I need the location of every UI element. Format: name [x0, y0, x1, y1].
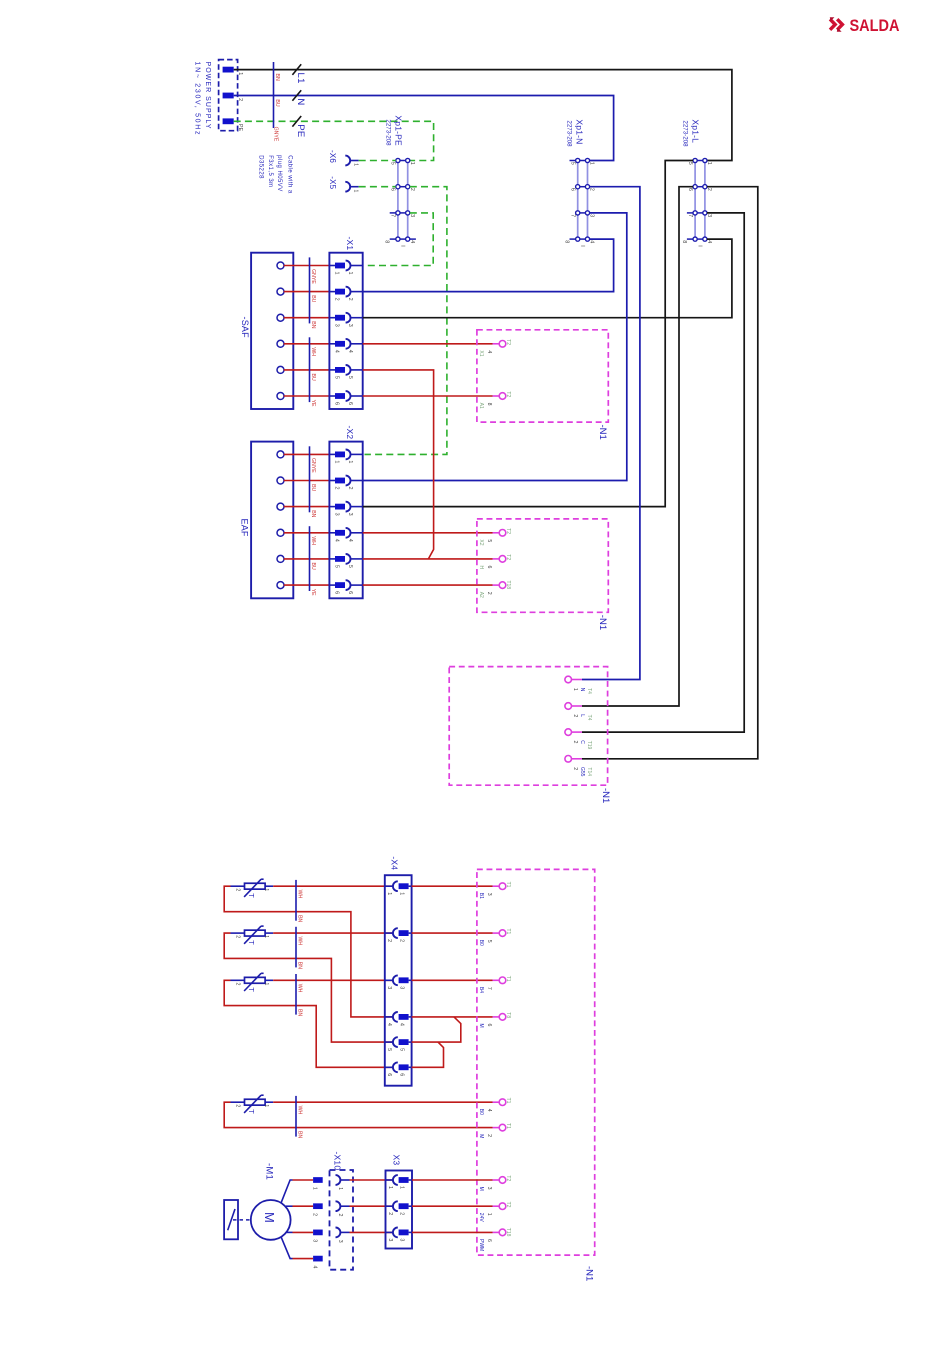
Xp1-PE footnote mark	[401, 245, 405, 247]
wire -X1.5 junction to -X2.5 net	[363, 370, 434, 559]
svg-text:BN: BN	[296, 1009, 302, 1016]
Xp1-PE pin 1	[406, 158, 410, 162]
Xp1-N pin 6	[576, 185, 580, 189]
wire Xp1-L.3 to -N1 T19:C	[582, 213, 744, 732]
-SAF contact 5	[277, 366, 284, 373]
svg-text:BU: BU	[274, 99, 280, 106]
Xp1-L pin 7 stub	[687, 212, 693, 214]
svg-text:N: N	[295, 98, 306, 105]
svg-text:2: 2	[312, 1213, 318, 1216]
wire EAF 5 to -X2 5	[284, 558, 330, 560]
svg-text:2: 2	[387, 1212, 393, 1215]
wire -SAF 6 to -X1 6	[284, 395, 330, 397]
svg-text:BN: BN	[296, 1131, 302, 1138]
svg-text:T2: T2	[505, 554, 511, 560]
terminal block -X4	[385, 875, 412, 1085]
svg-text:Xp1-N: Xp1-N	[575, 119, 585, 144]
-N1 terminal T4:N:1	[565, 676, 572, 683]
motor pin 1	[313, 1177, 323, 1183]
cable marker EAF-X2 upper	[309, 446, 311, 512]
-X1 terminal 6	[335, 393, 345, 399]
svg-text:T14: T14	[586, 767, 592, 776]
svg-text:BN: BN	[296, 962, 302, 969]
X3 terminal 1	[386, 1179, 394, 1181]
svg-text:1: 1	[398, 892, 404, 895]
cable marker SAF-X1 upper	[309, 257, 311, 323]
svg-text:5: 5	[334, 565, 340, 568]
-N1 input T2:H:6	[499, 556, 506, 563]
svg-text:T1: T1	[505, 929, 511, 935]
Xp1-PE pin 8	[396, 237, 400, 241]
svg-text:1: 1	[237, 72, 243, 75]
svg-text:2: 2	[234, 1104, 240, 1107]
svg-text:1: 1	[386, 892, 392, 895]
wire -SAF 5 to -X1 5	[284, 369, 330, 371]
Xp1-N pin 8 stub	[570, 238, 576, 240]
svg-text:YE: YE	[310, 400, 316, 407]
svg-text:2: 2	[386, 939, 392, 942]
cable marker thermistor	[295, 1096, 297, 1137]
wire Xp1-L.2 to -N1 T14:G55	[582, 187, 758, 759]
svg-text:-X5: -X5	[328, 176, 337, 189]
wire -SAF 4 to -X1 4	[284, 343, 330, 345]
connector Xp1-L internal bus	[694, 161, 696, 240]
-N1 input T1:B0:4	[499, 1099, 506, 1106]
Xp1-L pin 6	[693, 185, 697, 189]
Xp1-N pin 2	[585, 185, 589, 189]
wire -X2.6 to -N1 T18:A2	[363, 584, 493, 586]
-X1 terminal 1	[335, 263, 345, 269]
svg-text:3: 3	[337, 1240, 343, 1243]
motor lead 2	[286, 1205, 293, 1207]
svg-text:BN: BN	[310, 510, 316, 517]
svg-text:T8: T8	[505, 1012, 511, 1018]
wire X3.1 to -N1	[412, 1179, 493, 1181]
thermistor R1	[245, 883, 266, 889]
-N1 terminal T4:L:2	[565, 703, 572, 710]
thermistor R4	[245, 1099, 266, 1105]
-X2 terminal 2	[335, 478, 345, 484]
Xp1-L pin 1	[703, 158, 707, 162]
-SAF contact 1	[277, 262, 284, 269]
svg-text:2: 2	[409, 188, 415, 191]
Xp1-N pin 3	[585, 211, 589, 215]
-X4 terminal 1	[385, 885, 393, 887]
svg-text:5: 5	[486, 940, 492, 943]
svg-text:4: 4	[486, 350, 492, 353]
EAF contact 3	[277, 503, 284, 510]
svg-text:1: 1	[263, 935, 269, 938]
-N1 input T1:B0:5	[499, 930, 506, 937]
Xp1-PE pin 5	[396, 158, 400, 162]
svg-text:1: 1	[347, 272, 353, 275]
Xp1-PE pin 4 stub	[410, 238, 416, 240]
svg-text:2273-208: 2273-208	[385, 119, 392, 146]
wire thermistor R2 bottom to -X4.5	[224, 933, 393, 1042]
Xp1-L pin 5	[693, 158, 697, 162]
svg-text:3: 3	[312, 1239, 318, 1242]
svg-text:6: 6	[486, 566, 492, 569]
svg-text:-N1: -N1	[597, 425, 608, 440]
EAF contact 6	[277, 582, 284, 589]
svg-text:6: 6	[386, 1073, 392, 1076]
svg-text:T2: T2	[505, 1175, 511, 1181]
-N1 input T2:M:3	[499, 1177, 506, 1184]
wire thermistor R1 bottom to -X4.4	[224, 886, 393, 1017]
svg-text:3: 3	[486, 1187, 492, 1190]
wire -X5 to Xp1-PE green dashed	[359, 186, 396, 188]
svg-text:3: 3	[347, 513, 353, 516]
wire thermistor R2 top to -X4.2	[273, 932, 393, 934]
svg-text:X3: X3	[392, 1155, 402, 1166]
wire Xp1-PE pin2 to X2 pin1 green dashed	[365, 187, 447, 455]
svg-text:5: 5	[347, 376, 353, 379]
wire -X1.4 to -N1 T2:X1	[363, 343, 493, 345]
cable marker power supply	[273, 62, 275, 128]
svg-text:1: 1	[263, 1104, 269, 1107]
motor pin 4	[313, 1256, 323, 1262]
Xp1-PE pin 4	[406, 237, 410, 241]
Xp1-L pin 4	[703, 237, 707, 241]
Xp1-N pin 5	[576, 158, 580, 162]
-X2 terminal 4	[335, 530, 345, 536]
Xp1-PE pin 2	[406, 185, 410, 189]
svg-text:6: 6	[398, 1073, 404, 1076]
plug -X10 box	[330, 1170, 354, 1270]
connector Xp1-PE internal bus	[397, 161, 399, 240]
svg-text:4: 4	[312, 1266, 318, 1269]
svg-text:L: L	[579, 714, 585, 717]
svg-text:M: M	[478, 1024, 484, 1028]
svg-text:6: 6	[486, 1024, 492, 1027]
svg-text:3: 3	[334, 513, 340, 516]
svg-text:1: 1	[353, 190, 359, 193]
svg-text:M: M	[262, 1212, 277, 1223]
wire -X1.6 to -N1 T2:A1	[363, 395, 493, 397]
svg-text:-X4: -X4	[390, 856, 400, 870]
svg-text:1: 1	[334, 272, 340, 275]
-X4 terminal 3	[385, 979, 393, 981]
-X2 terminal 3	[335, 504, 345, 510]
-X2 terminal 1	[335, 452, 345, 458]
svg-text:2: 2	[347, 487, 353, 490]
wire -X1.2 to Xp1-N.4	[363, 239, 614, 292]
wire Xp1-N.2 to -N1 T4:N	[582, 187, 640, 680]
svg-text:5: 5	[398, 1048, 404, 1051]
svg-text:5: 5	[386, 1048, 392, 1051]
svg-text:D35228: D35228	[257, 155, 263, 179]
svg-text:1: 1	[398, 1186, 404, 1189]
wire N mains	[234, 96, 614, 161]
terminal block X3	[386, 1171, 413, 1249]
svg-text:X1: X1	[478, 350, 484, 356]
svg-text:BU: BU	[310, 295, 316, 302]
svg-text:GNYE: GNYE	[310, 458, 316, 473]
svg-text:1: 1	[263, 983, 269, 986]
svg-text:T19: T19	[586, 741, 592, 750]
connector Xp1-N internal bus	[577, 161, 579, 240]
Xp1-L footnote mark	[699, 245, 703, 247]
-X10 socket 3	[336, 1228, 341, 1238]
power supply box	[219, 60, 238, 131]
wire -SAF 2 to -X1 2	[284, 291, 330, 293]
svg-text:6: 6	[486, 1239, 492, 1242]
svg-text:A1: A1	[478, 403, 484, 409]
svg-text:2: 2	[337, 1214, 343, 1217]
motor -M1	[251, 1200, 291, 1240]
svg-text:7: 7	[570, 214, 576, 217]
svg-text:2: 2	[572, 714, 578, 717]
svg-text:B0: B0	[478, 940, 484, 946]
-X1 terminal 2	[335, 289, 345, 295]
wire -X10.3 to X3.3	[350, 1231, 393, 1233]
svg-text:2: 2	[347, 298, 353, 301]
svg-text:1: 1	[263, 888, 269, 891]
-N1 terminal T19:C:2	[565, 729, 572, 736]
svg-text:6: 6	[347, 591, 353, 594]
motor lead 1	[281, 1180, 292, 1203]
svg-text:BN: BN	[310, 321, 316, 328]
svg-text:GNYE: GNYE	[273, 127, 279, 142]
svg-text:4: 4	[589, 240, 595, 243]
controller -N1 main box	[477, 869, 595, 1255]
-N1 input T18:A2:2	[499, 582, 506, 589]
wire -X2.5 to -N1 T2:H	[363, 558, 493, 560]
wire thermistor R4 bottom to -N1 T1:M	[224, 1102, 492, 1127]
svg-text:M: M	[478, 1134, 484, 1138]
svg-text:T18: T18	[505, 581, 511, 590]
svg-text:2273-208: 2273-208	[566, 120, 573, 147]
svg-text:1: 1	[572, 688, 578, 691]
-SAF contact 2	[277, 288, 284, 295]
svg-text:2: 2	[486, 1134, 492, 1137]
Xp1-PE pin 7 stub	[390, 212, 396, 214]
svg-text:WH: WH	[296, 937, 302, 946]
-N1 input T18:PWM:6	[499, 1229, 506, 1236]
Xp1-N pin 4	[585, 237, 589, 241]
Xp1-N pin 7	[576, 211, 580, 215]
motor lead 4	[281, 1237, 292, 1258]
svg-text:5: 5	[570, 162, 576, 165]
wire -SAF 3 to -X1 3	[284, 317, 330, 319]
wire -X4.4 to -N1 T8:M	[412, 1016, 493, 1018]
cable marker thermistor	[295, 974, 297, 1015]
svg-text:PWM: PWM	[478, 1239, 484, 1251]
svg-text:T2: T2	[505, 528, 511, 534]
-N1 input T2:X2:5	[499, 530, 506, 537]
svg-text:3: 3	[398, 1238, 404, 1241]
wire -X4.5 join	[412, 1017, 461, 1042]
-X2 terminal 5	[335, 556, 345, 562]
svg-text:3: 3	[386, 986, 392, 989]
svg-text:BU: BU	[310, 484, 316, 491]
svg-text:PE: PE	[295, 124, 306, 137]
svg-text:24V: 24V	[478, 1213, 484, 1223]
-X1 terminal 5	[335, 367, 345, 373]
EAF contact 1	[277, 451, 284, 458]
Xp1-L pin 3	[703, 211, 707, 215]
Xp1-N pin 5 stub	[570, 160, 576, 162]
svg-text:1: 1	[387, 1186, 393, 1189]
svg-text:T2: T2	[505, 1202, 511, 1208]
svg-text:EAF: EAF	[240, 519, 250, 537]
svg-text:T2: T2	[505, 391, 511, 397]
svg-text:YE: YE	[310, 589, 316, 596]
svg-text:BN: BN	[296, 915, 302, 922]
svg-text:X2: X2	[478, 539, 484, 545]
switch slash PE	[292, 116, 301, 127]
svg-text:1: 1	[312, 1187, 318, 1190]
svg-text:2: 2	[237, 98, 243, 101]
wire thermistor R3 top to -X4.3	[273, 979, 393, 981]
thermistor R3	[245, 977, 266, 983]
svg-text:5: 5	[687, 162, 693, 165]
svg-text:2: 2	[234, 983, 240, 986]
svg-text:T4: T4	[586, 688, 592, 694]
shaft dashed link	[233, 1219, 251, 1221]
svg-text:C: C	[579, 740, 585, 744]
controller -N1 box 1	[477, 330, 608, 422]
svg-text:3: 3	[409, 214, 415, 217]
Xp1-N pin 8	[576, 237, 580, 241]
svg-text:B4: B4	[478, 987, 484, 993]
svg-text:1: 1	[486, 1213, 492, 1216]
svg-text:8: 8	[384, 240, 390, 243]
terminal block -X2	[329, 442, 362, 599]
svg-text:PE: PE	[237, 124, 243, 132]
svg-text:6: 6	[390, 188, 396, 191]
cable marker SAF-X1 lower	[309, 337, 311, 402]
svg-text:3: 3	[387, 1238, 393, 1241]
power supply terminal PE	[223, 118, 234, 124]
svg-text:3: 3	[589, 214, 595, 217]
svg-text:M: M	[478, 1187, 484, 1191]
EAF contact 2	[277, 477, 284, 484]
svg-text:Xp1-L: Xp1-L	[691, 119, 701, 143]
wire -X6 to Xp1-PE green dashed	[359, 160, 396, 162]
svg-text:SALDA: SALDA	[850, 16, 900, 35]
svg-text:4: 4	[334, 350, 340, 353]
svg-text:4: 4	[409, 240, 415, 243]
-N1 input T1:B4:7	[499, 977, 506, 984]
wire EAF 6 to -X2 6	[284, 584, 330, 586]
svg-text:G55: G55	[579, 767, 585, 777]
svg-text:4: 4	[706, 240, 712, 243]
svg-text:BU: BU	[310, 374, 316, 381]
svg-text:-X1: -X1	[345, 237, 355, 251]
svg-text:5: 5	[486, 539, 492, 542]
-SAF contact 6	[277, 393, 284, 400]
svg-text:6: 6	[347, 402, 353, 405]
svg-text:N: N	[579, 688, 585, 692]
wire -SAF 1 to -X1 1	[284, 265, 330, 267]
svg-text:1: 1	[706, 162, 712, 165]
svg-text:BN: BN	[274, 74, 280, 81]
motor pin 3	[313, 1230, 323, 1236]
svg-text:8: 8	[564, 240, 570, 243]
Xp1-L pin 8	[693, 237, 697, 241]
wire L1 mains	[234, 70, 732, 161]
svg-text:4: 4	[347, 350, 353, 353]
svg-text:4: 4	[347, 539, 353, 542]
svg-text:WH: WH	[310, 536, 316, 545]
svg-text:GNYE: GNYE	[310, 269, 316, 284]
svg-text:8: 8	[486, 403, 492, 406]
svg-text:B0: B0	[478, 1109, 484, 1115]
wire -X1.3 to Xp1-L.4	[363, 239, 732, 318]
svg-text:5: 5	[390, 162, 396, 165]
svg-text:1: 1	[337, 1187, 343, 1190]
-N1 input T2:24V:1	[499, 1203, 506, 1210]
svg-text:-X6: -X6	[328, 150, 337, 163]
svg-text:-N1: -N1	[600, 788, 611, 803]
wire Xp1-L.6 to -N1 T4:L	[582, 187, 693, 706]
-N1 input T1:B1:3	[499, 883, 506, 890]
switch slash N	[292, 90, 301, 101]
power supply terminal 1	[223, 67, 234, 73]
svg-text:2: 2	[706, 188, 712, 191]
svg-text:3: 3	[398, 986, 404, 989]
SALDA logo icon	[830, 19, 842, 30]
svg-text:T: T	[247, 940, 256, 945]
svg-text:-N1: -N1	[584, 1266, 595, 1281]
-X4 terminal 5	[385, 1041, 393, 1043]
wire -X2.2 to Xp1-N.3	[363, 213, 627, 481]
wire thermistor R1 top to -X4.1	[273, 885, 393, 887]
svg-text:1: 1	[409, 162, 415, 165]
X3 terminal 3	[386, 1231, 394, 1233]
svg-text:-X2: -X2	[345, 426, 355, 440]
svg-text:1: 1	[347, 460, 353, 463]
-X10 socket 2	[336, 1201, 341, 1211]
-X4 terminal 4	[385, 1016, 393, 1018]
-X4 terminal 6	[385, 1066, 393, 1068]
svg-text:1N~ 230V, 50Hz: 1N~ 230V, 50Hz	[194, 62, 201, 137]
svg-text:7: 7	[486, 987, 492, 990]
controller -N1 box 2	[477, 519, 608, 612]
svg-text:T1: T1	[505, 882, 511, 888]
svg-text:Cable with a: Cable with a	[287, 155, 293, 194]
X3 terminal 2	[386, 1205, 394, 1207]
svg-text:2: 2	[398, 939, 404, 942]
svg-text:B1: B1	[478, 893, 484, 899]
svg-text:2: 2	[234, 888, 240, 891]
-X1 terminal 3	[335, 315, 345, 321]
wire thermistor R3 bottom to -X4.6	[224, 980, 393, 1067]
wire EAF 2 to -X2 2	[284, 480, 330, 482]
Xp1-PE pin 3	[406, 211, 410, 215]
controller -N1 box 3	[449, 667, 607, 786]
Xp1-PE pin 8 stub	[390, 238, 396, 240]
svg-text:7: 7	[390, 214, 396, 217]
svg-text:2: 2	[572, 767, 578, 770]
svg-text:4: 4	[486, 1109, 492, 1112]
svg-text:6: 6	[334, 402, 340, 405]
svg-text:2: 2	[398, 1212, 404, 1215]
svg-text:3: 3	[486, 893, 492, 896]
wire -X2.4 to -N1 T2:X2	[363, 532, 493, 534]
-SAF contact 3	[277, 314, 284, 321]
svg-text:2: 2	[334, 298, 340, 301]
svg-text:6: 6	[687, 188, 693, 191]
svg-text:-M1: -M1	[264, 1163, 275, 1180]
propeller symbol	[224, 1200, 238, 1239]
svg-text:3: 3	[334, 324, 340, 327]
wire EAF 1 to -X2 1	[284, 453, 330, 455]
-N1 input T8:M:6	[499, 1014, 506, 1021]
svg-text:2: 2	[589, 188, 595, 191]
svg-text:4: 4	[334, 539, 340, 542]
